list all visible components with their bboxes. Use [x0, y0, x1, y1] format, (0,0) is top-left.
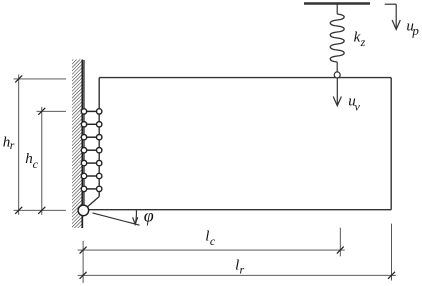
svg-text:r: r [10, 138, 15, 152]
svg-text:v: v [355, 100, 361, 114]
svg-text:φ: φ [144, 205, 154, 225]
svg-text:c: c [33, 157, 39, 171]
svg-text:r: r [240, 262, 245, 276]
svg-text:k: k [354, 30, 361, 46]
svg-text:l: l [205, 229, 209, 245]
svg-text:z: z [360, 35, 366, 49]
svg-text:p: p [411, 23, 419, 38]
svg-text:c: c [210, 234, 216, 248]
